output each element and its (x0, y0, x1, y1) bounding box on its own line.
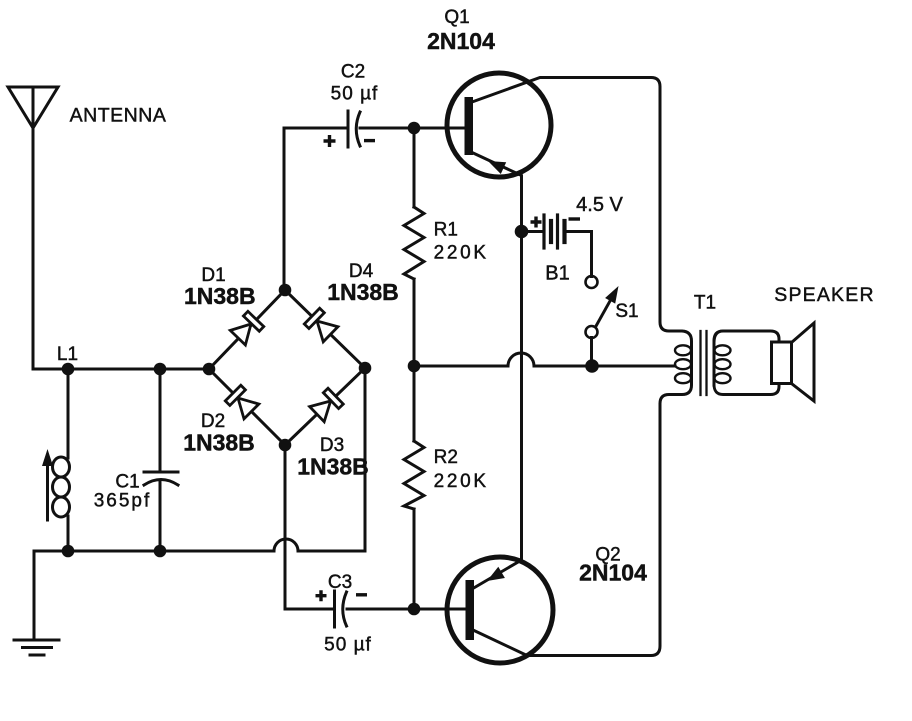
svg-text:220K: 220K (434, 243, 489, 264)
svg-text:220K: 220K (434, 471, 489, 492)
svg-text:4.5 V: 4.5 V (576, 194, 623, 216)
svg-text:1N38B: 1N38B (327, 279, 399, 305)
svg-text:ANTENNA: ANTENNA (70, 104, 167, 126)
svg-text:S1: S1 (615, 301, 638, 322)
svg-text:T1: T1 (694, 293, 716, 314)
svg-text:Q1: Q1 (444, 7, 469, 28)
svg-text:365pf: 365pf (94, 491, 152, 512)
svg-text:R2: R2 (434, 447, 458, 468)
svg-text:C2: C2 (341, 62, 365, 83)
svg-text:1N38B: 1N38B (183, 430, 255, 456)
svg-text:50 µf: 50 µf (331, 84, 379, 105)
svg-text:1N38B: 1N38B (184, 283, 256, 309)
svg-text:L1: L1 (57, 344, 78, 365)
svg-text:50 µf: 50 µf (324, 635, 372, 656)
svg-text:C3: C3 (328, 572, 352, 593)
svg-text:2N104: 2N104 (427, 28, 495, 54)
svg-text:SPEAKER: SPEAKER (774, 284, 875, 306)
svg-text:B1: B1 (545, 263, 569, 285)
svg-text:2N104: 2N104 (579, 560, 647, 586)
svg-text:C1: C1 (115, 472, 139, 493)
svg-text:R1: R1 (434, 220, 458, 241)
svg-text:1N38B: 1N38B (297, 454, 369, 480)
